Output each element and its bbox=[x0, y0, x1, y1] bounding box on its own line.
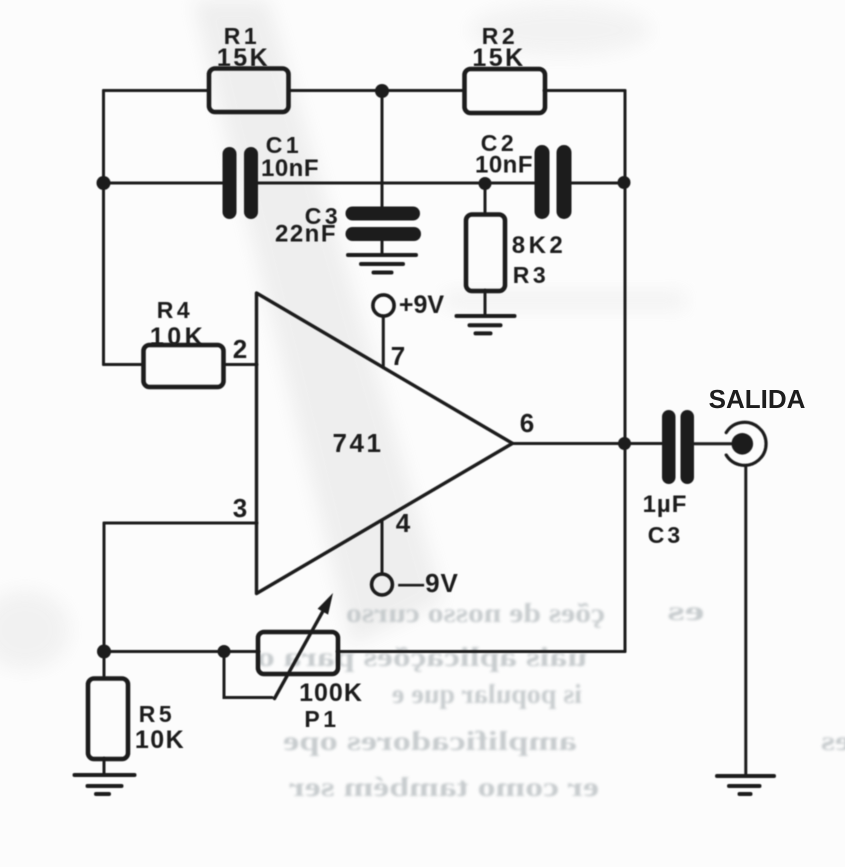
potentiometer P1 wiper arrow bbox=[275, 611, 323, 698]
wire R5 top stem bbox=[103, 652, 106, 680]
svg-text:4: 4 bbox=[396, 508, 411, 538]
svg-text:R3: R3 bbox=[513, 262, 549, 288]
svg-text:R4: R4 bbox=[157, 297, 193, 323]
svg-text:+9V: +9V bbox=[399, 291, 445, 319]
svg-text:—9V: —9V bbox=[398, 568, 459, 598]
wire R4 left lead bbox=[104, 363, 145, 366]
resistor R2 box bbox=[465, 69, 546, 113]
wire P1 right to feedback branch bbox=[337, 650, 625, 653]
wire C3 branch vertical (crossover, no junction) bbox=[381, 91, 384, 208]
svg-text:741: 741 bbox=[333, 428, 384, 458]
output connector SALIDA (jack) bbox=[726, 422, 766, 465]
junction node left of C1 bbox=[97, 176, 111, 190]
potentiometer P1 box bbox=[258, 632, 338, 674]
svg-text:ções de nosso curso: ções de nosso curso bbox=[346, 598, 605, 628]
svg-text:es: es bbox=[668, 596, 705, 626]
svg-text:R5: R5 bbox=[139, 701, 175, 727]
wire pin 4 to -9V bbox=[381, 521, 384, 574]
svg-text:22nF: 22nF bbox=[275, 221, 337, 248]
wire pin 7 to +9V bbox=[382, 316, 385, 368]
svg-text:er como também ser: er como também ser bbox=[289, 772, 599, 802]
wire top horizontal right segment bbox=[544, 89, 625, 92]
svg-text:uais aplicações para o: uais aplicações para o bbox=[257, 642, 587, 672]
svg-text:3: 3 bbox=[233, 493, 247, 523]
wire output connector to ground bbox=[744, 466, 747, 774]
wire middle horizontal right segment bbox=[571, 182, 625, 185]
wire middle horizontal left segment bbox=[104, 182, 224, 185]
op-amp U1 741 triangle bbox=[257, 293, 513, 594]
junction node R5 top bbox=[97, 645, 111, 659]
svg-text:10K: 10K bbox=[135, 726, 185, 754]
svg-text:7: 7 bbox=[391, 341, 405, 371]
junction node output/feedback bbox=[618, 437, 631, 450]
svg-text:10nF: 10nF bbox=[475, 152, 533, 179]
wire capacitor to output connector bbox=[694, 442, 741, 445]
wire middle horizontal center segment bbox=[258, 182, 535, 185]
wire top horizontal left segment bbox=[104, 89, 210, 92]
wire R3 top stem bbox=[484, 183, 487, 215]
wire bottom horizontal to P1 bbox=[104, 650, 259, 653]
svg-text:6: 6 bbox=[520, 408, 534, 438]
ground under R3 bbox=[457, 316, 515, 333]
junction node C2 right bbox=[618, 176, 631, 189]
-9V supply terminal circle bbox=[372, 574, 393, 595]
capacitor C2 plates bbox=[535, 145, 572, 219]
ground under SALIDA bbox=[717, 776, 774, 794]
wire pin 3 horizontal bbox=[104, 522, 257, 525]
svg-text:is popular que e: is popular que e bbox=[392, 679, 582, 709]
wire R3 bottom stem bbox=[484, 290, 487, 315]
svg-text:10K: 10K bbox=[150, 323, 206, 351]
junction node C2/R3 bbox=[479, 177, 492, 190]
wire left vertical lower branch bbox=[103, 523, 106, 652]
resistor R3 box bbox=[466, 215, 505, 292]
svg-text:1µF: 1µF bbox=[643, 491, 688, 518]
svg-text:SALIDA: SALIDA bbox=[709, 384, 806, 414]
ground under C3 bbox=[348, 255, 416, 273]
wire C3 to ground stem bbox=[381, 240, 384, 254]
junction node at R1/R2 bbox=[375, 84, 389, 98]
wire R5 bottom stem bbox=[103, 758, 106, 774]
svg-text:2: 2 bbox=[233, 334, 247, 364]
resistor R5 box bbox=[88, 679, 128, 760]
svg-text:10nF: 10nF bbox=[261, 155, 319, 182]
svg-text:15K: 15K bbox=[217, 44, 270, 72]
svg-text:es: es bbox=[821, 726, 845, 756]
resistor R1 box bbox=[209, 69, 289, 113]
wire P1 wiper connection L-shape bbox=[224, 652, 272, 698]
capacitor C3 1uF output plates bbox=[662, 410, 694, 484]
ground under R5 bbox=[75, 775, 135, 794]
capacitor C1 plates bbox=[223, 147, 259, 219]
svg-text:8K2: 8K2 bbox=[512, 232, 567, 259]
wire R4 to pin 2 bbox=[223, 363, 257, 366]
wire right vertical branch bbox=[624, 91, 627, 652]
svg-text:15K: 15K bbox=[472, 44, 525, 72]
capacitor C3 22nF plates bbox=[346, 207, 422, 242]
resistor R4 box bbox=[144, 345, 224, 387]
svg-text:100K: 100K bbox=[299, 679, 363, 707]
wire top horizontal middle segment bbox=[288, 89, 465, 92]
svg-text:P1: P1 bbox=[304, 706, 339, 732]
wire pin 6 output bbox=[512, 442, 663, 445]
wire left vertical upper branch bbox=[102, 91, 105, 365]
+9V supply terminal circle bbox=[373, 295, 394, 316]
junction node P1 wiper bbox=[218, 645, 231, 658]
svg-text:C3: C3 bbox=[648, 522, 683, 548]
